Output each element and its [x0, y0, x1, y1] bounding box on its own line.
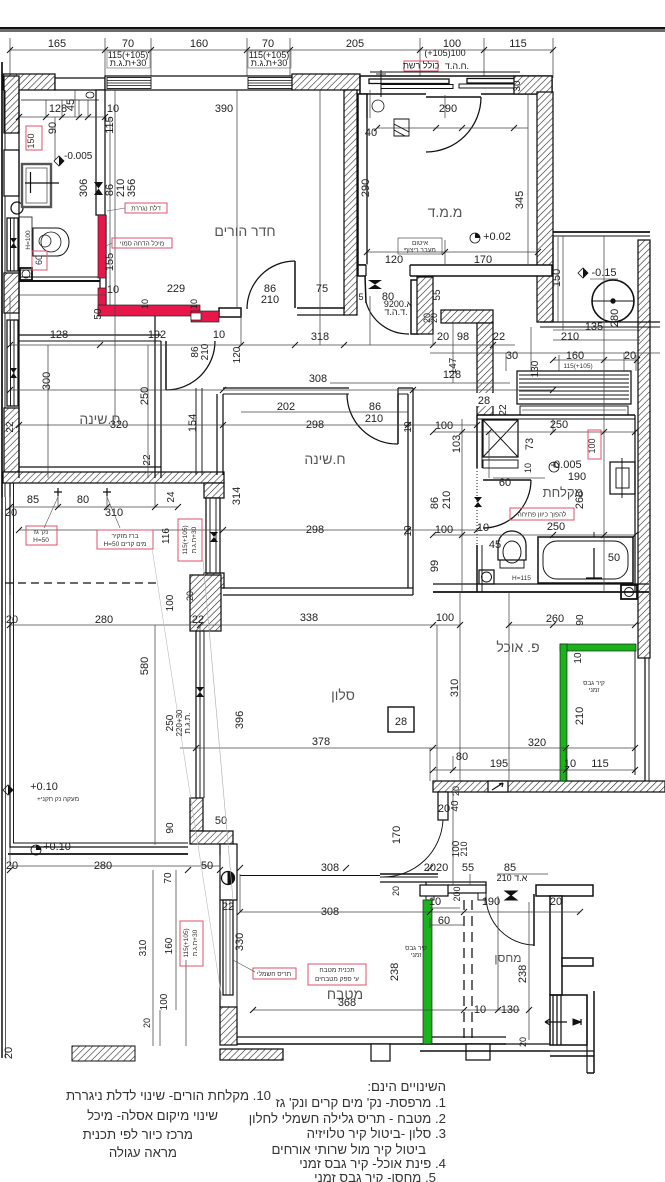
svg-text:170: 170 [474, 254, 492, 266]
svg-text:‭ת.ג.ת+30‬: ‭ת.ג.ת+30‬ [251, 58, 288, 68]
svg-text:‫מראה עגולה‬: ‫מראה עגולה‬ [109, 1145, 177, 1160]
svg-text:280: 280 [94, 860, 112, 872]
svg-text:50: 50 [201, 860, 213, 872]
svg-text:73: 73 [524, 438, 536, 450]
svg-text:100: 100 [435, 420, 453, 432]
svg-text:20: 20 [6, 614, 18, 626]
svg-text:זמני: זמני [411, 952, 423, 959]
svg-text:‫מרכז כיור לפי תכנית‬: ‫מרכז כיור לפי תכנית‬ [83, 1127, 193, 1142]
svg-text:130: 130 [501, 1004, 519, 1016]
svg-text:280: 280 [609, 309, 621, 327]
svg-text:30: 30 [506, 350, 518, 362]
svg-text:נק' גז: נק' גז [34, 529, 49, 536]
svg-text:‭ת.ג.ת+30‬: ‭ת.ג.ת+30‬ [192, 929, 199, 956]
svg-text:50: 50 [93, 308, 104, 320]
svg-text:‫10. מקלחת הורים- שינוי לדלת נ: ‫10. מקלחת הורים- שינוי לדלת ניגררת‬ [66, 1088, 271, 1103]
svg-text:580: 580 [139, 657, 151, 675]
svg-text:20: 20 [550, 896, 562, 908]
svg-text:H=100: H=100 [25, 230, 32, 250]
svg-text:תכנית מטבח: תכנית מטבח [319, 967, 354, 974]
svg-text:20: 20 [142, 1018, 152, 1028]
svg-text:חדר הורים: חדר הורים [214, 223, 275, 239]
svg-text:מחסן: מחסן [494, 951, 521, 965]
svg-text:60: 60 [438, 915, 450, 927]
svg-text:170: 170 [391, 826, 403, 844]
svg-text:מיכל הדחה סמוי: מיכל הדחה סמוי [120, 240, 164, 248]
svg-text:20: 20 [3, 1047, 15, 1059]
svg-text:210: 210 [200, 343, 211, 360]
svg-text:202: 202 [277, 401, 295, 413]
svg-text:דלת נגררת: דלת נגררת [131, 205, 161, 213]
svg-text:115: 115 [509, 38, 527, 50]
svg-text:135: 135 [585, 321, 603, 333]
svg-text:298: 298 [306, 419, 324, 431]
svg-text:320: 320 [110, 419, 128, 431]
svg-text:195: 195 [490, 758, 508, 770]
svg-text:(+105)100: (+105)100 [424, 48, 465, 58]
svg-text:308: 308 [309, 373, 327, 385]
svg-text:28: 28 [395, 716, 407, 728]
svg-text:עי ספק מטבחים: עי ספק מטבחים [315, 976, 359, 983]
svg-text:10: 10 [477, 522, 489, 534]
svg-text:5: 5 [358, 292, 363, 302]
svg-text:210: 210 [574, 707, 586, 725]
svg-text:10: 10 [573, 652, 584, 664]
svg-text:90: 90 [165, 822, 176, 834]
svg-text:ח.ה.ד.: ח.ה.ד. [445, 61, 469, 71]
svg-text:300: 300 [41, 372, 53, 390]
svg-text:55: 55 [432, 289, 443, 301]
svg-text:90: 90 [575, 614, 586, 626]
svg-text:160: 160 [164, 937, 175, 954]
svg-text:‫שינוי מיקום אסלה- מיכל‬: ‫שינוי מיקום אסלה- מיכל‬ [87, 1108, 218, 1123]
svg-text:310: 310 [449, 679, 461, 697]
svg-text:55: 55 [462, 862, 474, 874]
svg-text:356: 356 [126, 179, 138, 197]
svg-text:20: 20 [185, 591, 195, 601]
svg-text:238: 238 [389, 963, 401, 981]
svg-text:-0.005: -0.005 [64, 151, 93, 162]
svg-text:290: 290 [439, 103, 457, 115]
svg-text:22: 22 [498, 404, 509, 416]
svg-text:70: 70 [262, 38, 274, 50]
svg-text:99: 99 [429, 560, 441, 572]
svg-text:368: 368 [338, 997, 356, 1009]
svg-text:60: 60 [34, 255, 44, 265]
svg-text:איטום: איטום [412, 240, 428, 247]
svg-text:פ. אוכל: פ. אוכל [496, 639, 539, 655]
svg-text:298: 298 [306, 524, 324, 536]
svg-text:160: 160 [190, 38, 208, 50]
svg-text:60: 60 [499, 477, 511, 489]
svg-text:120: 120 [385, 254, 403, 266]
svg-text:45: 45 [489, 539, 501, 551]
svg-text:390: 390 [215, 103, 233, 115]
svg-text:20: 20 [6, 860, 18, 872]
svg-text:210: 210 [441, 491, 453, 509]
svg-text:10: 10 [107, 103, 119, 115]
svg-text:22: 22 [493, 331, 505, 343]
svg-text:86: 86 [369, 401, 381, 413]
svg-text:115(+105): 115(+105) [563, 363, 592, 370]
svg-text:-0.15: -0.15 [591, 267, 616, 279]
svg-text:250: 250 [550, 419, 568, 431]
svg-text:318: 318 [311, 331, 329, 343]
svg-text:50: 50 [215, 815, 227, 827]
svg-text:115(+105): 115(+105) [182, 525, 189, 554]
svg-text:100: 100 [159, 993, 170, 1010]
svg-text:308: 308 [321, 862, 339, 874]
svg-text:‫ביטול קיר מול שרותי אורחים‬: ‫ביטול קיר מול שרותי אורחים‬ [272, 1142, 427, 1157]
svg-text:22: 22 [142, 454, 153, 466]
svg-text:306: 306 [78, 179, 90, 197]
svg-text:10: 10 [189, 299, 199, 309]
svg-text:45: 45 [65, 99, 77, 111]
svg-text:20: 20 [438, 803, 450, 815]
svg-text:20: 20 [422, 313, 432, 323]
svg-text:10: 10 [140, 299, 150, 309]
svg-text:22: 22 [222, 901, 234, 913]
svg-text:205: 205 [346, 38, 364, 50]
svg-text:‫1. מרפסת- נק' מים קרים ונק' ג: ‫1. מרפסת- נק' מים קרים ונק' גז‬ [276, 1095, 446, 1110]
svg-text:10: 10 [429, 896, 441, 908]
svg-text:20: 20 [5, 507, 17, 519]
svg-text:מ.מ.ד: מ.מ.ד [428, 204, 463, 220]
svg-text:154: 154 [187, 414, 199, 432]
svg-text:260: 260 [546, 613, 564, 625]
svg-text:116: 116 [161, 528, 172, 544]
svg-text:190: 190 [568, 471, 586, 483]
svg-text:396: 396 [234, 711, 246, 729]
svg-text:20: 20 [391, 886, 401, 896]
svg-text:330: 330 [234, 933, 246, 951]
svg-text:30: 30 [512, 80, 523, 92]
svg-text:290: 290 [360, 179, 372, 197]
svg-text:100: 100 [165, 594, 176, 611]
svg-text:22: 22 [5, 421, 16, 433]
svg-text:ח.שינה: ח.שינה [304, 451, 345, 467]
svg-text:103: 103 [451, 435, 463, 453]
svg-text:‫4. פינת אוכל- קיר גבס זמני‬: ‫4. פינת אוכל- קיר גבס זמני‬ [299, 1156, 446, 1171]
svg-text:+מעקה נק חקני: +מעקה נק חקני [37, 796, 79, 803]
svg-text:10: 10 [474, 1004, 486, 1016]
svg-text:10: 10 [403, 421, 414, 433]
svg-text:98: 98 [457, 331, 469, 343]
svg-text:378: 378 [312, 736, 330, 748]
svg-text:155: 155 [104, 253, 116, 271]
svg-text:128: 128 [50, 329, 68, 341]
svg-text:70: 70 [163, 872, 174, 884]
svg-text:100: 100 [587, 438, 597, 453]
svg-text:+0.10: +0.10 [43, 841, 71, 853]
svg-text:‫5. מחסן- קיר גבס זמני‬: ‫5. מחסן- קיר גבס זמני‬ [314, 1170, 436, 1182]
svg-text:210 א.ד: 210 א.ד [497, 873, 528, 883]
svg-text:210: 210 [459, 841, 469, 856]
svg-text:80: 80 [456, 751, 468, 763]
svg-text:40: 40 [365, 127, 377, 139]
svg-text:200: 200 [452, 886, 462, 901]
svg-text:20: 20 [451, 786, 461, 796]
svg-text:10: 10 [403, 525, 414, 537]
svg-text:‫2. מטבח - תריס גלילה חשמלי לח: ‫2. מטבח - תריס גלילה חשמלי לחלון‬ [249, 1111, 446, 1126]
svg-text:20: 20 [518, 1037, 528, 1047]
svg-text:-0.005: -0.005 [550, 459, 581, 471]
svg-text:50: 50 [608, 552, 620, 564]
svg-text:10: 10 [107, 284, 119, 296]
svg-text:147: 147 [448, 357, 459, 374]
svg-text:2020: 2020 [424, 862, 448, 874]
svg-text:20: 20 [624, 350, 636, 362]
svg-text:86: 86 [429, 497, 441, 509]
svg-text:‫מים קרים H=50‬: ‫מים קרים H=50‬ [103, 541, 146, 548]
svg-text:130: 130 [530, 360, 541, 377]
svg-text:320: 320 [528, 737, 546, 749]
svg-text:להפוך כיוון פתיחה: להפוך כיוון פתיחה [518, 511, 567, 519]
svg-text:250: 250 [547, 521, 565, 533]
svg-text:308: 308 [321, 906, 339, 918]
svg-text:22: 22 [192, 614, 204, 626]
svg-text:70: 70 [122, 38, 134, 50]
svg-text:קיר גבס: קיר גבס [405, 945, 427, 952]
svg-text:268: 268 [574, 491, 586, 509]
svg-text:75: 75 [316, 283, 328, 295]
svg-text:314: 314 [231, 487, 243, 505]
svg-text:100: 100 [436, 612, 454, 624]
svg-text:210: 210 [561, 331, 579, 343]
svg-text:H=50: H=50 [33, 537, 49, 544]
svg-text:80: 80 [77, 494, 89, 506]
svg-text:210: 210 [365, 413, 383, 425]
svg-text:סלון: סלון [331, 687, 355, 703]
svg-text:210: 210 [261, 294, 279, 306]
svg-text:24: 24 [166, 491, 177, 503]
svg-text:כולל רשת: כולל רשת [403, 61, 440, 71]
svg-text:115: 115 [104, 116, 116, 134]
svg-text:+0.02: +0.02 [483, 231, 511, 243]
svg-text:229: 229 [167, 283, 185, 295]
svg-text:338: 338 [300, 612, 318, 624]
svg-text:20: 20 [437, 331, 449, 343]
svg-text:ברז מזקיר: ברז מזקיר [112, 533, 139, 540]
svg-text:‭ת.ג.ת+30‬: ‭ת.ג.ת+30‬ [191, 526, 198, 553]
svg-text:90: 90 [47, 122, 59, 134]
svg-text:192: 192 [148, 329, 166, 341]
svg-text:10: 10 [523, 463, 533, 473]
svg-text:120: 120 [232, 346, 243, 363]
svg-text:‫3. סלון -ביטול קיר טלויזיה‬: ‫3. סלון -ביטול קיר טלויזיה‬ [307, 1126, 446, 1141]
svg-text:תריס חשמלי: תריס חשמלי [257, 970, 291, 978]
svg-text:28: 28 [478, 395, 490, 407]
svg-text:40: 40 [450, 800, 461, 812]
svg-text:165: 165 [48, 38, 66, 50]
svg-text:קיר גבס: קיר גבס [583, 680, 605, 687]
svg-text:זמני: זמני [589, 687, 601, 694]
svg-text:10: 10 [564, 758, 576, 770]
svg-text:ת.ג.ת.: ת.ג.ת. [183, 712, 192, 733]
svg-text:100: 100 [435, 524, 453, 536]
svg-text:‫השינויים הינם:‬: ‫השינויים הינם:‬ [367, 1079, 446, 1094]
svg-text:310: 310 [138, 939, 149, 956]
svg-text:150: 150 [26, 133, 36, 148]
svg-text:85: 85 [27, 494, 39, 506]
svg-text:115: 115 [591, 758, 609, 770]
svg-text:238: 238 [517, 965, 529, 983]
svg-text:10: 10 [213, 329, 225, 341]
svg-text:150: 150 [551, 269, 563, 287]
svg-text:250: 250 [139, 387, 151, 405]
svg-text:345: 345 [514, 191, 526, 209]
svg-text:מעבר ריצוף: מעבר ריצוף [404, 247, 436, 254]
svg-text:115(+105): 115(+105) [183, 928, 190, 957]
svg-text:160: 160 [566, 350, 584, 362]
svg-text:‭ת.ג.ת+30‬: ‭ת.ג.ת+30‬ [110, 58, 147, 68]
svg-text:280: 280 [95, 614, 113, 626]
svg-text:190: 190 [482, 896, 500, 908]
svg-text:ד.ה.ד.: ד.ה.ד. [384, 307, 407, 317]
svg-text:H=115: H=115 [512, 575, 531, 582]
